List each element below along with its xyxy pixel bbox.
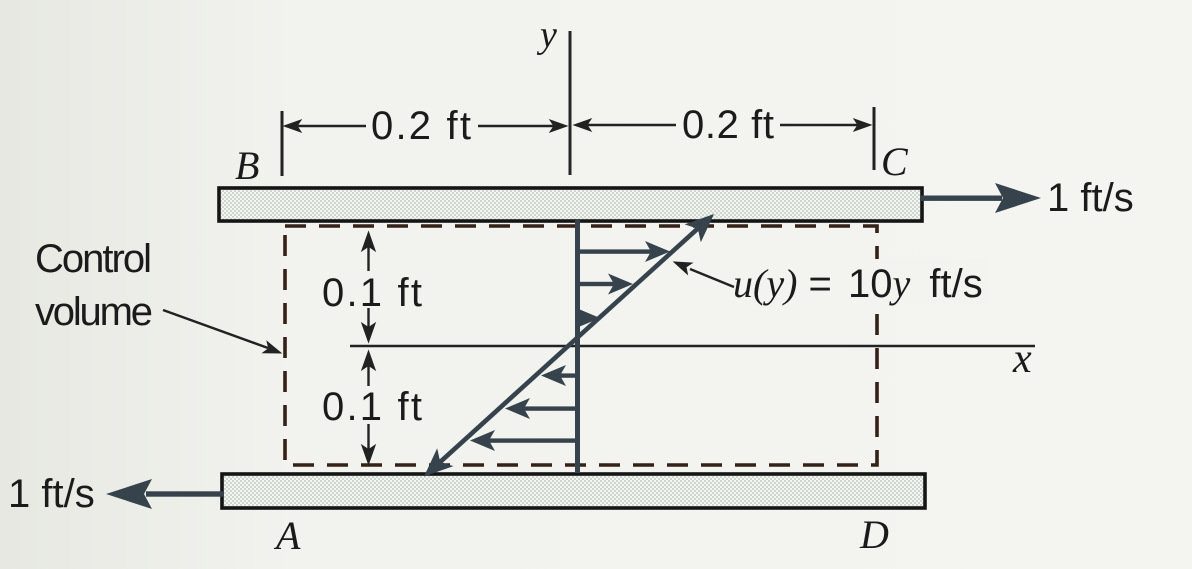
svg-text:1 ft/s: 1 ft/s (8, 472, 95, 516)
upper 0.1 ft dimension arrow (362, 232, 375, 342)
left 0.2 ft dimension line (284, 120, 567, 132)
svg-text:volume: volume (35, 290, 153, 334)
u(y) profile equation label backing (845, 259, 987, 304)
svg-text:0.2 ft: 0.2 ft (682, 103, 774, 147)
top plate velocity arrow 1 ft/s (920, 183, 1041, 213)
left dimension tick at B (281, 111, 284, 176)
y axis (569, 31, 572, 175)
x axis (350, 345, 1035, 347)
velocity arrow left row 3 (470, 430, 576, 451)
velocity arrow left row 2 (505, 398, 576, 419)
lower 0.1 ft dimension arrow (362, 351, 375, 464)
bottom plate velocity arrow 1 ft/s (106, 479, 224, 509)
velocity profile diagonal line (416, 205, 722, 485)
bottom plate AD (222, 474, 925, 508)
svg-text:D: D (859, 512, 889, 557)
velocity arrow right row 1 (579, 241, 670, 262)
svg-text:0.1 ft: 0.1 ft (322, 385, 422, 429)
svg-text:A: A (273, 513, 301, 558)
svg-text:0.1 ft: 0.1 ft (322, 271, 422, 315)
svg-text:C: C (881, 139, 909, 184)
svg-text:y: y (536, 14, 557, 56)
velocity arrow right row 3 (575, 308, 600, 329)
right 0.2 ft dimension line (574, 119, 871, 131)
velocity arrow left row 1 (541, 365, 576, 386)
right dimension tick at C (873, 107, 876, 170)
control volume dashed boundary (285, 226, 877, 465)
svg-text:0.2 ft: 0.2 ft (371, 104, 471, 148)
svg-text:B: B (235, 143, 259, 188)
velocity profile baseline (575, 220, 580, 473)
top plate BC (219, 188, 922, 221)
Control volume leader arrow (163, 310, 283, 359)
svg-text:x: x (1012, 336, 1032, 382)
svg-text:Control: Control (35, 237, 152, 281)
u(y) leader arrow (672, 256, 734, 287)
svg-text:1 ft/s: 1 ft/s (1047, 176, 1134, 220)
svg-text:u(y) = 10y ft/s: u(y) = 10y ft/s (733, 261, 983, 306)
velocity arrow right row 2 (579, 274, 633, 295)
